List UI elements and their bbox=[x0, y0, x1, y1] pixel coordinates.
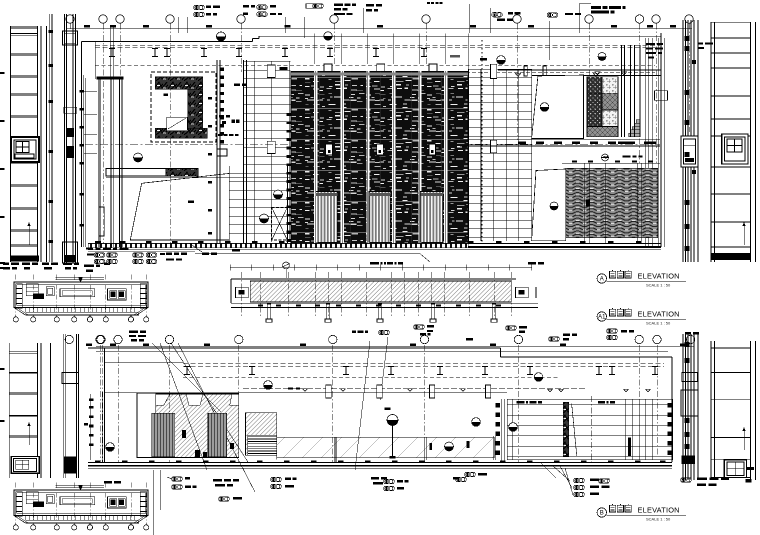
svg-text:A: A bbox=[600, 277, 604, 283]
svg-text:ELEVATION: ELEVATION bbox=[638, 310, 680, 319]
svg-text:B: B bbox=[600, 511, 604, 517]
svg-text:SCALE 1 : 50: SCALE 1 : 50 bbox=[646, 321, 671, 326]
svg-text:ELEVATION: ELEVATION bbox=[638, 272, 680, 281]
svg-text:SCALE 1 : 50: SCALE 1 : 50 bbox=[646, 517, 671, 522]
svg-text:SCALE 1 : 50: SCALE 1 : 50 bbox=[646, 283, 671, 288]
svg-text:A1: A1 bbox=[598, 315, 606, 321]
svg-text:ELEVATION: ELEVATION bbox=[638, 506, 680, 515]
